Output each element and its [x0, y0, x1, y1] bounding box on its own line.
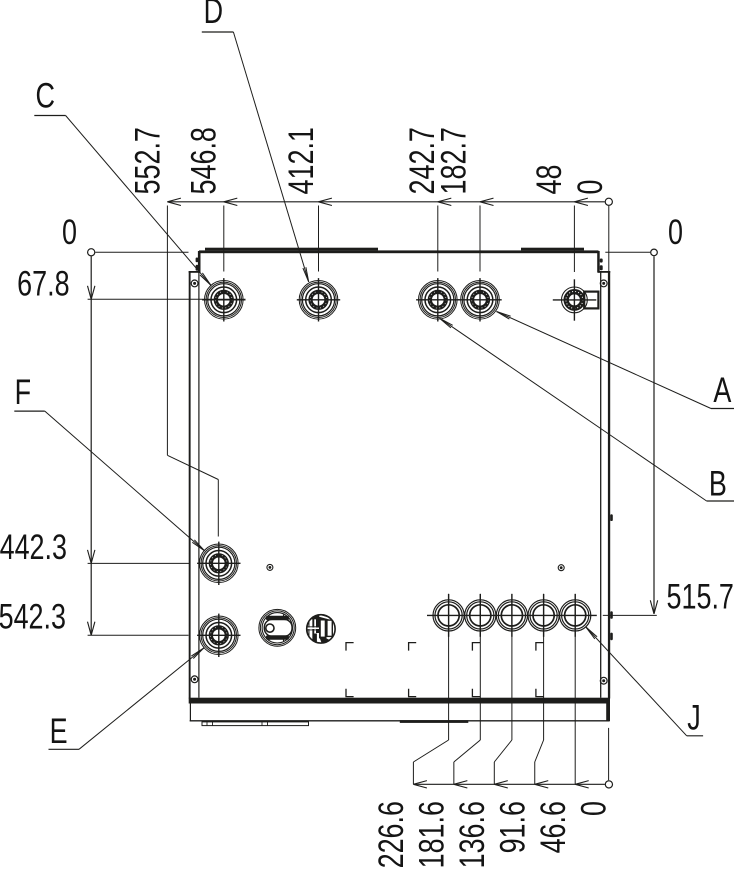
ext line 542.3	[88, 634, 189, 636]
base plate bottom edge	[190, 720, 610, 722]
label J underline	[687, 735, 703, 737]
knockout corner marks col 4	[536, 643, 544, 651]
right wall hinge bump 2	[610, 611, 613, 619]
leader C	[66, 116, 211, 286]
right wall inner line	[600, 273, 602, 698]
condensate trap fitting	[259, 609, 296, 646]
top dimension line	[167, 201, 604, 203]
base plate left edge	[189, 704, 191, 722]
top dim text 48	[530, 165, 569, 195]
fitting C (546.8)	[205, 281, 244, 320]
label F underline	[14, 410, 45, 412]
bottom dim text 181.6	[412, 801, 451, 868]
label A underline	[711, 408, 734, 410]
left dim arrow 67.8	[88, 286, 92, 300]
top dim arrow 546.8	[224, 198, 238, 202]
svg-text:552.7: 552.7	[128, 127, 167, 194]
fitting F (442.3)	[200, 544, 239, 583]
leader B	[440, 318, 707, 501]
knockout corner marks col 3	[472, 643, 480, 651]
dim text 515.7	[667, 577, 734, 616]
ext line 242.7	[437, 206, 439, 272]
bottom circle 4 row	[528, 600, 559, 631]
right wall upper segment	[597, 251, 600, 273]
svg-text:546.8: 546.8	[184, 127, 223, 194]
left wall upper segment	[198, 251, 201, 273]
left datum line	[95, 251, 188, 253]
fitting E (542.3)	[200, 616, 239, 655]
ext line 412.1	[318, 206, 320, 272]
leader A	[497, 312, 712, 409]
label letter B	[709, 464, 727, 503]
right dimension line 515.7	[653, 256, 655, 613]
top dim text 0	[571, 180, 610, 195]
panel rivet 2	[558, 565, 564, 571]
bottom dim text 46.6	[534, 801, 573, 853]
svg-text:181.6: 181.6	[412, 801, 451, 868]
label C underline	[34, 115, 65, 117]
svg-text:442.3: 442.3	[0, 528, 67, 567]
right datum text 0	[668, 213, 683, 252]
top dim arrow 48	[574, 198, 588, 202]
base plate bottom dark segment	[400, 720, 469, 723]
top dim arrow 552.7	[167, 198, 181, 202]
fitting at 242.7	[419, 281, 458, 320]
top dim arrow 242.7	[438, 198, 452, 202]
svg-text:0: 0	[668, 213, 683, 252]
label letter C	[35, 76, 54, 115]
svg-text:48: 48	[530, 165, 569, 195]
dim text 442.3	[0, 528, 67, 567]
svg-text:0: 0	[574, 801, 613, 816]
left dim arrow 442.3	[88, 550, 92, 564]
svg-text:C: C	[35, 76, 54, 115]
bottom dimension line	[413, 783, 605, 785]
svg-text:B: B	[709, 464, 727, 503]
knockout corner marks col 2	[409, 643, 417, 651]
leader J	[586, 627, 687, 736]
svg-text:F: F	[15, 373, 31, 412]
svg-text:0: 0	[571, 180, 610, 195]
label letter A	[713, 371, 731, 410]
enclosure top lip left segment	[205, 248, 378, 251]
top dim text 546.8	[184, 127, 223, 194]
label B underline	[707, 500, 734, 502]
bottom circle 1 row	[433, 600, 464, 631]
bottom circle 5 extension	[574, 594, 576, 785]
left datum circle 0	[88, 249, 95, 256]
panel rivet 1	[267, 564, 273, 570]
bottom dim arrow 46.6	[575, 781, 589, 785]
knockout corner marks col 1	[346, 643, 354, 651]
corner screw 1	[191, 280, 198, 287]
top dim text 552.7	[128, 127, 167, 194]
svg-text:226.6: 226.6	[372, 801, 411, 868]
ext line 48	[573, 206, 575, 273]
ext line 67.8	[88, 298, 246, 300]
left wall inner line	[198, 253, 200, 698]
leader D	[233, 32, 308, 282]
bottom dim arrow 136.6	[494, 781, 508, 785]
right dim arrow 515.7	[650, 600, 654, 614]
enclosure top edge	[199, 250, 599, 253]
top dim arrow 182.7	[480, 198, 494, 202]
corner screw 3	[600, 280, 607, 287]
bottom dim text 0	[574, 801, 613, 816]
svg-text:136.6: 136.6	[453, 801, 492, 868]
svg-text:412.1: 412.1	[282, 127, 321, 194]
svg-text:67.8: 67.8	[17, 264, 69, 303]
svg-text:91.6: 91.6	[493, 801, 532, 853]
left wall step	[189, 271, 200, 273]
ext line 442.3	[88, 562, 190, 564]
svg-text:46.6: 46.6	[534, 801, 573, 853]
right datum line	[605, 251, 650, 253]
enclosure top lip right segment	[521, 248, 584, 251]
svg-text:J: J	[687, 698, 700, 737]
fitting D (412.1)	[299, 281, 338, 320]
ext line top datum	[608, 206, 610, 272]
left dim arrow 542.3	[88, 622, 92, 636]
right wall step	[598, 271, 610, 273]
svg-text:182.7: 182.7	[434, 127, 473, 194]
ext line 552.7 jogged	[166, 206, 168, 456]
top dim arrow 412.1	[318, 198, 332, 202]
bottom circle 2 row	[465, 600, 496, 631]
corner screw 2	[191, 676, 198, 683]
label E underline	[49, 748, 80, 750]
label letter D	[204, 0, 223, 31]
left datum text 0	[62, 213, 77, 252]
bottom circle 2 extension jog	[479, 594, 481, 740]
bottom datum circle 0	[605, 781, 612, 788]
dim text 67.8	[17, 264, 69, 303]
svg-text:E: E	[50, 712, 68, 751]
bottom dark band	[189, 698, 610, 704]
bottom dim arrow 91.6	[535, 781, 549, 785]
right datum circle 0	[651, 249, 658, 256]
bottom dim arrow 226.6	[413, 781, 427, 785]
leader F	[45, 411, 205, 551]
bottom dim text 91.6	[493, 801, 532, 853]
bottom dim text 136.6	[453, 801, 492, 868]
bottom circle 3 extension jog	[511, 594, 513, 740]
bottom dim arrow 181.6	[454, 781, 468, 785]
right wall outer line	[608, 271, 610, 699]
bottom circle 3 row	[496, 600, 527, 631]
right wall hinge bump 1	[610, 514, 613, 521]
top dim text 412.1	[282, 127, 321, 194]
top dim text 182.7	[434, 127, 473, 194]
corner screw 4	[600, 677, 607, 684]
svg-text:D: D	[204, 0, 223, 31]
left wall outer line	[189, 271, 191, 699]
label letter J	[687, 698, 700, 737]
label letter F	[15, 373, 31, 412]
label D underline	[202, 31, 234, 33]
ext line 182.7	[479, 206, 481, 272]
left wall upper tab	[196, 258, 199, 263]
gas fitting at 48	[584, 292, 598, 309]
bottom datum ext line	[608, 728, 610, 780]
left foot	[202, 722, 309, 726]
left dimension line	[90, 256, 92, 635]
label letter E	[50, 712, 68, 751]
ext line 515.7	[603, 614, 657, 616]
bottom circle 4 extension jog	[543, 594, 545, 740]
dim text 542.3	[0, 597, 66, 636]
right wall upper tab	[600, 259, 603, 263]
base plate right edge	[606, 704, 610, 722]
svg-text:515.7: 515.7	[667, 577, 734, 616]
bottom dim text 226.6	[372, 801, 411, 868]
right wall hinge bump 3	[610, 633, 613, 641]
svg-text:A: A	[713, 371, 731, 410]
fitting at 182.7	[461, 281, 500, 320]
svg-text:0: 0	[62, 213, 77, 252]
bottom circle 5 row	[560, 600, 591, 631]
leader E	[79, 648, 204, 749]
bottom circle 1 extension jog	[448, 594, 450, 740]
top datum circle 0	[605, 198, 612, 205]
bottom circles row centerline	[427, 614, 597, 616]
svg-text:542.3: 542.3	[0, 597, 66, 636]
ext line 546.8	[223, 206, 225, 272]
top dim text 242.7	[403, 127, 442, 194]
